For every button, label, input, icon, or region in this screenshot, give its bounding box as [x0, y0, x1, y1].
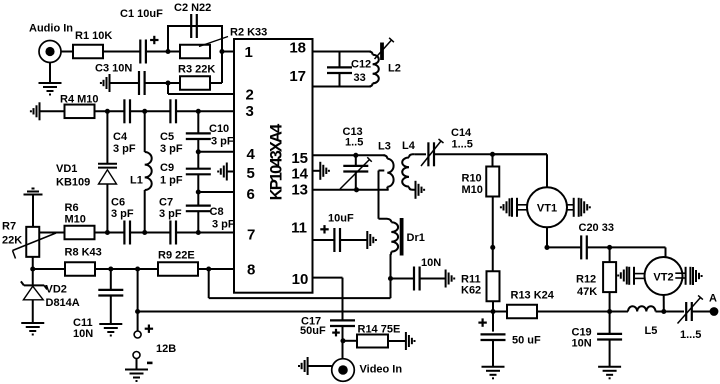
svg-text:C12: C12	[351, 59, 371, 71]
ground (VT1 right)	[580, 198, 582, 216]
node (R10 top)	[490, 152, 495, 157]
wire (to pin 6)	[198, 191, 234, 193]
capacitor C5	[169, 99, 171, 123]
wire	[493, 153, 548, 155]
svg-text:1 pF: 1 pF	[160, 175, 183, 187]
svg-text:M10: M10	[462, 184, 483, 196]
node (C19 junction)	[607, 309, 612, 314]
capacitor C11	[98, 289, 123, 291]
svg-text:Dr1: Dr1	[407, 232, 425, 244]
trimmer capacitor C21	[685, 302, 687, 321]
svg-text:K62: K62	[461, 285, 481, 297]
ground (pin 14)	[319, 162, 321, 180]
wire	[106, 184, 108, 233]
svg-text:10N: 10N	[572, 338, 592, 350]
svg-text:R14 75E: R14 75E	[358, 324, 401, 336]
ground (C19)	[598, 366, 621, 368]
trimmer resistor R7	[26, 227, 39, 257]
capacitor (VT1 right bypass)	[573, 198, 575, 217]
capacitor C12	[339, 52, 341, 68]
svg-text:12B: 12B	[156, 343, 176, 355]
svg-text:1...5: 1...5	[680, 329, 701, 341]
capacitor (VT2 right bypass)	[685, 267, 687, 285]
wire (pin 17)	[313, 86, 372, 88]
svg-text:1: 1	[245, 44, 253, 61]
svg-text:C20 33: C20 33	[579, 222, 614, 234]
wire	[343, 340, 357, 342]
inductor L4	[409, 154, 415, 157]
ground (50uF)	[482, 366, 505, 368]
wire	[665, 247, 667, 258]
svg-text:VT1: VT1	[537, 203, 557, 215]
wire	[340, 239, 367, 241]
core of Dr1	[400, 218, 404, 256]
wire	[197, 111, 199, 133]
wire	[197, 152, 199, 169]
inductor L2	[369, 52, 373, 55]
ground (pin 11 cap)	[366, 231, 368, 249]
svg-text:R9 22E: R9 22E	[158, 250, 195, 262]
node (R12 top)	[607, 245, 612, 250]
wire (to pin 2)	[167, 83, 169, 94]
wire (pin 15)	[313, 154, 386, 156]
wire	[32, 269, 34, 285]
svg-text:R8 K43: R8 K43	[65, 247, 102, 259]
wire	[32, 257, 34, 269]
wire	[32, 300, 34, 323]
wire	[656, 311, 685, 313]
varicap VD1	[98, 163, 117, 165]
wire (pin 18)	[313, 51, 372, 53]
wire (pin 10)	[313, 277, 343, 279]
tap of L3	[379, 170, 385, 172]
ground (R4)	[39, 102, 41, 120]
wire (loop to C2)	[168, 26, 222, 52]
svg-text:R3 22K: R3 22K	[178, 64, 215, 76]
node B2	[142, 230, 147, 235]
wiper arrow R7	[13, 233, 57, 251]
wire	[110, 269, 112, 290]
svg-text:R2 K33: R2 K33	[230, 27, 267, 39]
ground (10N bypass)	[445, 270, 447, 288]
capacitor C17	[330, 319, 355, 321]
svg-text:10N: 10N	[73, 328, 93, 340]
trimmer capacitor C13	[355, 155, 357, 166]
node A1	[105, 109, 110, 114]
svg-text:47K: 47K	[577, 286, 597, 298]
wire (to pin 7)	[176, 232, 234, 234]
ground (VT2 right)	[692, 267, 694, 285]
svg-text:Video In: Video In	[360, 364, 403, 376]
wire (to pin 8)	[198, 268, 234, 270]
svg-text:C6: C6	[111, 197, 125, 209]
capacitor 50uF	[481, 333, 506, 335]
resistor R2	[180, 45, 210, 59]
wire	[692, 311, 711, 313]
svg-text:C2 N22: C2 N22	[174, 2, 211, 14]
capacitor C9	[186, 168, 211, 170]
resistor R4	[65, 105, 95, 119]
node (C11 junction)	[108, 266, 113, 271]
node (12V junction)	[135, 266, 140, 271]
svg-text:1..5: 1..5	[345, 137, 363, 149]
wire	[434, 153, 547, 155]
wire (pin 13)	[313, 189, 389, 191]
wire	[130, 232, 170, 234]
svg-text:KP1043XA4: KP1043XA4	[268, 123, 286, 200]
svg-text:M10: M10	[65, 214, 86, 226]
node (pin1 junction)	[219, 49, 224, 54]
node A3	[196, 109, 201, 114]
wire (pin 8 loop)	[208, 269, 210, 298]
svg-text:L2: L2	[388, 63, 401, 75]
svg-text:C4: C4	[113, 131, 128, 143]
capacitor 10N (bypass)	[413, 267, 415, 291]
node (C13 top)	[353, 153, 358, 158]
wire	[96, 268, 159, 270]
svg-text:10uF: 10uF	[328, 213, 354, 225]
wire (to pin 3)	[176, 110, 234, 112]
node (pin7 row)	[196, 230, 201, 235]
svg-text:C14: C14	[451, 127, 472, 139]
svg-text:C3 10N: C3 10N	[95, 63, 132, 75]
ground (pin 5)	[226, 163, 228, 181]
wire	[546, 227, 548, 247]
wire	[197, 192, 199, 206]
svg-text:11: 11	[291, 220, 307, 237]
svg-text:3 pF: 3 pF	[211, 136, 234, 148]
svg-text:2: 2	[246, 87, 254, 104]
resistor R1	[73, 45, 103, 59]
node (pin8 branch)	[206, 266, 211, 271]
svg-text:50uF: 50uF	[300, 325, 326, 337]
node (C1/R2 junction)	[165, 49, 170, 54]
svg-text:A: A	[709, 293, 717, 305]
wire	[145, 82, 180, 84]
svg-text:C1 10uF: C1 10uF	[120, 8, 163, 20]
svg-text:L5: L5	[645, 325, 658, 337]
svg-text:L3: L3	[378, 141, 391, 153]
wire	[110, 296, 112, 325]
svg-text:R13 K24: R13 K24	[511, 290, 555, 302]
capacitor C7	[169, 221, 171, 245]
wire	[110, 82, 141, 84]
wire	[420, 278, 446, 280]
capacitor C3	[138, 71, 140, 95]
capacitor (VT2 left bypass)	[628, 267, 630, 285]
wire	[537, 311, 628, 313]
wire	[609, 292, 611, 311]
wire	[492, 312, 494, 332]
svg-text:3 pF: 3 pF	[113, 143, 136, 155]
wire	[61, 51, 73, 53]
svg-text:VD1: VD1	[56, 163, 77, 175]
svg-text:C7: C7	[159, 197, 173, 209]
wire	[492, 197, 494, 248]
capacitor C20	[580, 235, 582, 259]
wire	[492, 340, 494, 367]
wire	[95, 110, 125, 112]
resistor R13	[507, 305, 537, 319]
wire	[588, 246, 666, 248]
node A2	[142, 109, 147, 114]
svg-text:1...5: 1...5	[452, 139, 473, 151]
wire	[388, 340, 406, 342]
wire	[197, 211, 199, 232]
svg-text:R6: R6	[65, 202, 79, 214]
capacitor (VT1 gate bypass)	[511, 198, 513, 217]
svg-text:R4 M10: R4 M10	[60, 94, 99, 106]
power symbol (above R7)	[24, 194, 43, 196]
svg-text:R12: R12	[576, 274, 596, 286]
ground (C11)	[99, 323, 122, 325]
capacitor C8	[186, 205, 211, 207]
node (50uF junction)	[490, 309, 495, 314]
wire	[39, 232, 64, 234]
wire	[415, 153, 426, 155]
wire	[391, 278, 414, 280]
svg-text:C8: C8	[210, 206, 224, 218]
connector Audio In	[39, 41, 61, 63]
terminal A (antenna)	[710, 308, 717, 315]
node (VD2 junction)	[30, 266, 35, 271]
wire	[609, 340, 611, 367]
resistor R12	[609, 247, 611, 262]
svg-text:17: 17	[289, 68, 306, 85]
wire	[547, 246, 580, 248]
wire	[197, 174, 199, 192]
svg-text:VT2: VT2	[653, 271, 673, 283]
svg-text:22K: 22K	[2, 235, 22, 247]
choke Dr1	[379, 219, 392, 222]
node (VT1 bottom junction)	[490, 245, 495, 250]
wire	[609, 312, 611, 334]
wire	[144, 111, 146, 152]
svg-text:4: 4	[247, 146, 256, 163]
inductor L3	[384, 155, 388, 158]
svg-text:6: 6	[247, 186, 255, 203]
ground (Video In)	[307, 357, 309, 375]
wire	[95, 232, 125, 234]
wire	[106, 111, 108, 163]
wire	[103, 51, 140, 53]
ground (C3)	[109, 74, 111, 92]
trimmer capacitor C14	[427, 142, 429, 166]
svg-text:3 pF: 3 pF	[111, 208, 134, 220]
svg-text:C9: C9	[160, 162, 174, 174]
svg-text:KB109: KB109	[56, 177, 90, 189]
svg-text:7: 7	[247, 227, 255, 244]
svg-text:18: 18	[289, 40, 306, 57]
svg-text:C10: C10	[209, 123, 229, 135]
ground (-12V)	[136, 359, 138, 370]
svg-text:C5: C5	[160, 131, 174, 143]
svg-text:10N: 10N	[421, 257, 441, 269]
resistor R14	[357, 335, 388, 348]
capacitor C10	[186, 132, 211, 134]
core of L2	[380, 43, 384, 61]
wire	[137, 269, 139, 331]
ground (Audio In)	[49, 63, 51, 84]
wire	[663, 295, 665, 312]
wire	[210, 82, 222, 84]
svg-text:13: 13	[291, 182, 308, 199]
svg-text:R1 10K: R1 10K	[75, 30, 112, 42]
wire	[492, 301, 494, 311]
resistor R8	[65, 262, 95, 276]
inductor L1	[145, 152, 152, 190]
svg-text:3 pF: 3 pF	[159, 208, 182, 220]
wire	[342, 326, 344, 359]
svg-text:R10: R10	[462, 173, 482, 185]
capacitor C6	[123, 221, 125, 245]
terminal -12V	[133, 352, 140, 359]
resistor R9	[158, 262, 198, 276]
svg-text:3 pF: 3 pF	[212, 219, 235, 231]
node (pin6)	[196, 189, 201, 194]
node (rail tap)	[135, 309, 140, 314]
svg-text:3 pF: 3 pF	[160, 143, 183, 155]
inductor L5	[628, 306, 656, 311]
svg-text:D814A: D814A	[46, 297, 80, 309]
node (VT1 emitter)	[544, 245, 549, 250]
wire (to pin 1)	[222, 51, 234, 53]
terminal +12V	[134, 331, 141, 338]
resistor R11	[492, 247, 494, 271]
ground (L4)	[415, 181, 417, 199]
node (video junction)	[340, 338, 345, 343]
capacitor C19	[597, 333, 622, 335]
transistor VT2	[645, 257, 683, 295]
node (C3/R3 junction)	[165, 80, 170, 85]
connector Video In	[332, 359, 355, 382]
wire	[146, 51, 180, 53]
svg-text:33: 33	[354, 72, 366, 84]
wire (to pin 4)	[198, 151, 234, 153]
svg-text:L4: L4	[402, 140, 416, 152]
ground (VT1 left)	[509, 198, 511, 216]
ground (VD2)	[21, 322, 44, 324]
ground (R14)	[405, 332, 407, 350]
capacitor 10uF (pin 11)	[333, 228, 335, 252]
svg-text:Audio In: Audio In	[29, 23, 73, 35]
wire (pin 11)	[313, 239, 335, 241]
node (pin4)	[196, 149, 201, 154]
capacitor C2	[190, 14, 192, 38]
svg-text:14: 14	[291, 165, 308, 182]
wire	[33, 268, 65, 270]
node (C13 bottom)	[354, 187, 359, 192]
node (VT2 emitter junction)	[661, 309, 666, 314]
node (Dr1 bottom)	[388, 276, 393, 281]
resistor R3	[180, 76, 210, 90]
svg-text:3: 3	[246, 103, 254, 120]
svg-text:L1: L1	[130, 175, 143, 187]
wire	[197, 139, 199, 152]
IC U1 KP1043XA4	[234, 39, 313, 293]
zener VD2	[24, 284, 44, 286]
wire	[144, 190, 146, 233]
wire	[40, 110, 65, 112]
wire (+12V rail)	[138, 311, 507, 313]
svg-text:8: 8	[247, 262, 255, 279]
node B1	[105, 230, 110, 235]
capacitor C1	[139, 40, 141, 64]
resistor R10	[492, 154, 494, 167]
svg-text:50 uF: 50 uF	[512, 335, 541, 347]
svg-text:10: 10	[292, 271, 309, 288]
svg-text:5: 5	[247, 165, 255, 182]
resistor R6	[65, 226, 95, 240]
wire	[130, 110, 170, 112]
svg-text:VD2: VD2	[46, 284, 67, 296]
ground (VT2 left)	[626, 267, 628, 285]
transistor VT1	[527, 187, 567, 227]
capacitor C4	[123, 99, 125, 123]
svg-text:R7: R7	[2, 221, 16, 233]
